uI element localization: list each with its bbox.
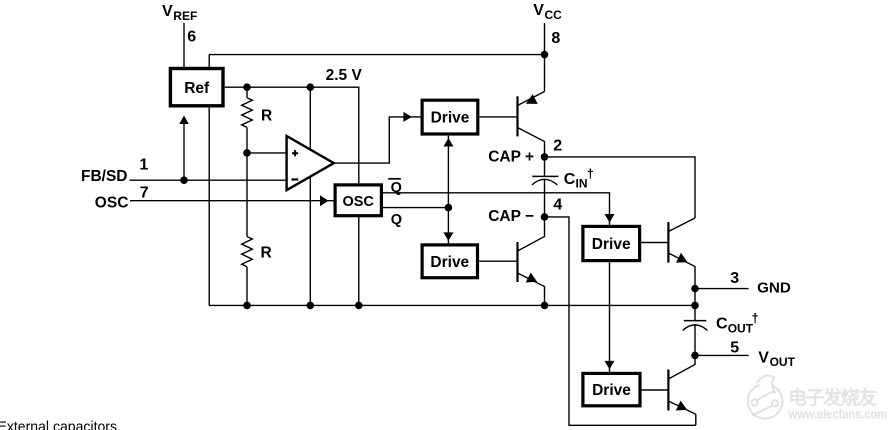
value CIN <box>564 166 594 190</box>
svg-text:4: 4 <box>553 197 562 214</box>
svg-text:Drive: Drive <box>430 254 469 271</box>
wire Drive3 to Drive4 <box>605 262 615 372</box>
block Drive3 <box>583 226 640 260</box>
block Ref <box>170 69 223 106</box>
svg-text:CC: CC <box>545 8 563 22</box>
label FB/SD <box>81 168 128 185</box>
resistor R2 <box>242 237 253 267</box>
label GND <box>757 280 791 297</box>
svg-text:5: 5 <box>730 339 739 356</box>
label OSC pin <box>95 194 129 211</box>
svg-text:C: C <box>716 316 728 333</box>
wire ground bus <box>209 304 695 306</box>
svg-text:1: 1 <box>139 157 148 174</box>
svg-text:3: 3 <box>730 270 739 287</box>
svg-text:R: R <box>261 244 272 261</box>
wire Drive2 to Q2 base <box>479 260 517 262</box>
svg-text:Ref: Ref <box>184 80 210 97</box>
svg-text:Drive: Drive <box>592 236 631 253</box>
svg-text:IN: IN <box>576 176 588 190</box>
pin 8 <box>551 30 560 47</box>
node 2.5V rail mid dot <box>307 83 315 91</box>
capacitor CIN <box>532 176 559 185</box>
label Q-bar <box>388 179 402 196</box>
wire FB/SD pin to op-amp inverting input <box>130 179 287 181</box>
op-amp U1 comparator <box>287 136 334 190</box>
transistor Q1 PNP high-side switch <box>518 92 545 157</box>
capacitor CIN top lead <box>544 157 546 176</box>
pin 6 <box>187 28 196 45</box>
pin 2 <box>553 138 562 155</box>
wire GND node down to COUT <box>694 289 696 321</box>
svg-text:External capacitors: External capacitors <box>0 418 117 430</box>
wire op-amp output to Drive1 <box>334 112 421 163</box>
svg-text:8: 8 <box>551 30 560 47</box>
resistor R1 <box>242 98 253 128</box>
wire VCC top rail from left vertical to VCC pin <box>209 54 544 56</box>
footnote External capacitors <box>0 418 117 430</box>
wire CAP- node to bottom rail to Q4 emitter <box>545 217 696 425</box>
wire left vertical (behind Ref box) <box>208 55 210 306</box>
node bus OSC dot <box>355 302 363 310</box>
transistor Q3 NPN CAP+ to GND switch <box>668 218 695 289</box>
svg-text:Drive: Drive <box>592 382 631 399</box>
svg-text:V: V <box>533 2 544 19</box>
svg-text:FB/SD: FB/SD <box>81 168 128 185</box>
block Drive2 <box>422 245 477 278</box>
value COUT <box>716 311 759 336</box>
node bus mid dot <box>307 302 315 310</box>
svg-text:REF: REF <box>173 9 197 23</box>
wire comparator + input <box>247 152 287 154</box>
node Q fanout dot <box>445 204 453 212</box>
wire OSC pin into OSC block <box>130 195 334 206</box>
wire Drive3 to Q3 base <box>641 242 668 244</box>
capacitor COUT <box>683 321 708 331</box>
label CAP- <box>488 208 534 225</box>
svg-text:Q: Q <box>391 180 402 196</box>
pin 4 <box>553 197 562 214</box>
node VCC junction dot <box>541 51 549 59</box>
label OSC block <box>342 194 374 210</box>
svg-text:V: V <box>758 349 769 366</box>
svg-text:C: C <box>564 171 576 188</box>
resistor R1 top lead <box>246 87 248 98</box>
wire 2.5V rail from Ref output down through OSC to bus <box>225 87 359 305</box>
wire Drive1 to Q1 base <box>479 116 517 118</box>
wire FB/SD node up to Ref block <box>179 116 189 181</box>
svg-text:2.5 V: 2.5 V <box>326 67 363 84</box>
wire Drive4 to Q4 base <box>642 389 669 391</box>
svg-text:www.elecfans.com: www.elecfans.com <box>788 408 887 422</box>
svg-text:GND: GND <box>757 280 791 297</box>
svg-text:电子发烧友: 电子发烧友 <box>788 386 877 409</box>
svg-text:2: 2 <box>553 138 562 155</box>
node CAP+ dot <box>541 153 549 161</box>
svg-text:OSC: OSC <box>95 194 129 211</box>
label VREF <box>162 3 197 23</box>
svg-text:OUT: OUT <box>770 355 796 369</box>
node bus Q2 dot <box>541 302 549 310</box>
wire VOUT pin stub <box>695 354 749 356</box>
label Drive1 <box>431 110 470 127</box>
node bus R2 dot <box>243 302 251 310</box>
wire mid vertical 2.5V rail to bus <box>309 87 311 305</box>
wire OSC Q-bar output to Drive3 <box>383 193 615 225</box>
wire OSC Q output <box>383 207 448 209</box>
label Ref <box>184 80 210 97</box>
transistor Q4 NPN output switch <box>668 355 695 425</box>
svg-text:V: V <box>162 3 173 20</box>
block Drive1 <box>422 100 478 134</box>
value R2 <box>261 244 272 261</box>
transistor Q2 NPN CAP- to ground switch <box>518 217 545 306</box>
svg-text:†: † <box>587 166 594 181</box>
svg-text:OUT: OUT <box>728 321 754 335</box>
svg-text:7: 7 <box>140 184 149 201</box>
wire VREF pin stub <box>183 23 185 68</box>
svg-text:CAP −: CAP − <box>488 208 534 225</box>
wire CAP+ node to Q3 collector <box>545 157 696 218</box>
node bus GND dot <box>691 302 699 310</box>
svg-text:OSC: OSC <box>342 194 374 210</box>
node CAP- dot <box>541 213 549 221</box>
label VOUT <box>758 349 795 369</box>
node 2.5V rail R1 dot <box>243 83 251 91</box>
label Q <box>391 212 402 228</box>
label Drive2 <box>430 254 469 271</box>
node FB/SD junction dot <box>180 176 188 184</box>
label CAP+ <box>488 149 534 166</box>
capacitor COUT bottom lead to VOUT node <box>694 325 696 356</box>
wire Q node vertical to Drive1 and Drive2 <box>443 136 453 244</box>
watermark url <box>788 408 887 422</box>
pin 1 <box>139 157 148 174</box>
wire R1 bottom to comparator + node to R2 top <box>246 127 248 236</box>
label 2.5 V <box>326 67 363 84</box>
wire R2 bottom lead to bus <box>246 267 248 306</box>
watermark elecfans logo <box>748 376 783 419</box>
value R1 <box>261 107 272 124</box>
svg-text:†: † <box>752 311 759 326</box>
svg-text:CAP +: CAP + <box>488 149 534 166</box>
capacitor CIN bottom lead to CAP- node <box>544 180 546 217</box>
node GND dot <box>691 285 699 293</box>
svg-text:Drive: Drive <box>431 110 470 127</box>
svg-text:R: R <box>261 107 272 124</box>
svg-text:6: 6 <box>187 28 196 45</box>
svg-text:Q: Q <box>391 212 402 228</box>
label VCC <box>533 2 562 22</box>
wire GND pin stub <box>695 288 749 290</box>
label Drive4 <box>592 382 631 399</box>
node VOUT dot <box>691 352 699 360</box>
pin 7 <box>140 184 149 201</box>
pin 5 <box>730 339 739 356</box>
block Drive4 <box>583 373 640 405</box>
block OSC <box>335 185 381 216</box>
pin 3 <box>730 270 739 287</box>
label Drive3 <box>592 236 631 253</box>
watermark chinese text <box>788 386 877 409</box>
wire VCC pin stub down to Q1 emitter corner <box>544 23 546 92</box>
node comparator + input dot <box>243 149 251 157</box>
